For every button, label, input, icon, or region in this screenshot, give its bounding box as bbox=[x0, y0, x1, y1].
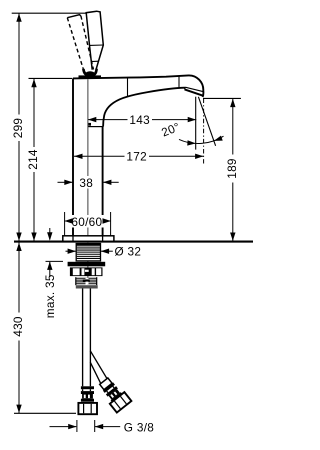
fitting gray collar bbox=[76, 285, 98, 288]
dimension 189 line bbox=[232, 99, 234, 242]
dimension 299 line bbox=[18, 13, 20, 241]
svg-text:max. 35: max. 35 bbox=[43, 274, 57, 318]
dimension max.35 lower arrow and line bbox=[47, 262, 52, 270]
label 430 bbox=[12, 313, 24, 341]
dimension 430 line bbox=[18, 242, 20, 413]
handle dashed alternate position top edge bbox=[67, 15, 81, 18]
svg-text:38: 38 bbox=[79, 176, 93, 190]
straight hose end fitting bbox=[81, 386, 94, 389]
svg-text:60/60: 60/60 bbox=[71, 215, 102, 229]
mounting nut bbox=[70, 267, 103, 276]
label 60/60 bbox=[70, 215, 104, 228]
dimension 214 extension line bbox=[29, 77, 73, 79]
svg-text:189: 189 bbox=[225, 158, 239, 179]
threaded tail bbox=[76, 278, 97, 283]
spout seam line 2 bbox=[178, 76, 180, 88]
spout seam line 1 bbox=[127, 78, 129, 97]
dimension 214 line bbox=[33, 79, 35, 241]
dimension diameter 32 arrows bbox=[66, 250, 76, 252]
label 299 bbox=[12, 115, 24, 142]
handle neck crease bbox=[91, 60, 98, 62]
spout aerator face bbox=[185, 87, 203, 91]
diagonal hose end fitting bbox=[96, 375, 131, 412]
label 214 bbox=[27, 147, 39, 172]
dimension 38 arrows bbox=[58, 181, 73, 183]
handle base dome bbox=[83, 69, 96, 76]
dimension 143 line bbox=[88, 119, 196, 121]
dimension 189 extension line bbox=[203, 97, 241, 99]
base plate bbox=[63, 236, 114, 242]
max.35 extension tick at flange top bbox=[46, 260, 64, 262]
svg-text:214: 214 bbox=[26, 149, 40, 170]
svg-text:172: 172 bbox=[126, 150, 147, 164]
column left edge bbox=[72, 78, 74, 235]
straight supply hose bbox=[82, 289, 84, 387]
svg-text:Ø 32: Ø 32 bbox=[115, 245, 142, 259]
bottom reference line bbox=[14, 412, 76, 414]
angle arc bbox=[179, 136, 224, 143]
countertop line bbox=[14, 241, 253, 243]
60/60 extension lines bbox=[64, 212, 66, 236]
svg-text:430: 430 bbox=[11, 316, 25, 337]
straight fitting hex nut bbox=[78, 403, 97, 414]
label 172 bbox=[125, 150, 150, 162]
dimension max.35 upper arrow bbox=[49, 228, 51, 240]
diagonal supply hose bbox=[90, 351, 107, 379]
angle 20 deg slanted stream line bbox=[198, 97, 215, 146]
handle dashed alternate right edge bbox=[81, 16, 94, 70]
wire top extension line from handle top bbox=[12, 12, 87, 14]
angle reference vertical solid line at aerator bbox=[195, 97, 197, 150]
handle grip crease bbox=[90, 44, 104, 46]
svg-text:G 3/8: G 3/8 bbox=[124, 420, 154, 434]
dimension G 3/8 bbox=[50, 426, 77, 428]
spout-column junction line bbox=[88, 126, 103, 128]
label 38 bbox=[78, 176, 95, 189]
svg-text:143: 143 bbox=[129, 113, 150, 127]
label 143 bbox=[128, 114, 153, 126]
faucet body: top surface and tip corner bbox=[73, 75, 204, 97]
dimension 172 line bbox=[74, 155, 204, 157]
handle dashed alternate left edge bbox=[67, 18, 84, 71]
svg-text:299: 299 bbox=[11, 118, 25, 139]
column right edge bbox=[102, 127, 104, 236]
handle solid outline bbox=[86, 11, 103, 69]
center axis line bbox=[87, 79, 89, 285]
mounting flange bbox=[68, 262, 106, 267]
angle dashed vertical line from spout tip bbox=[203, 99, 205, 164]
dimension 60/60 line bbox=[64, 220, 111, 222]
threaded shank bbox=[76, 244, 100, 261]
handle base cap band bbox=[79, 75, 102, 78]
spout underside curve bbox=[103, 88, 185, 127]
label 189 bbox=[227, 155, 239, 183]
